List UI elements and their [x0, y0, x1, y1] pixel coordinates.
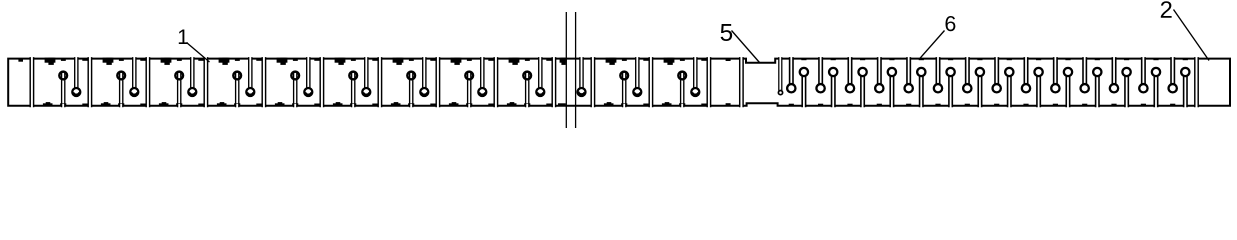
cell 4 keyhole cut K4a — [233, 71, 241, 107]
short cell bottom notch — [726, 103, 731, 105]
cell 6 top edge notch — [335, 58, 346, 65]
cell 8 cell end notches — [488, 58, 493, 106]
cell 2 keyhole cut K2b — [130, 57, 138, 96]
comb cut up U8 — [1005, 59, 1013, 108]
cell 3 top edge notch — [161, 58, 172, 65]
link slot S12 — [649, 57, 652, 108]
leader line 5 — [732, 31, 760, 63]
cell 1 keyhole cut K1a — [59, 71, 67, 107]
comb cut up U14 — [1181, 59, 1189, 108]
cell 2 cell end notches — [140, 58, 145, 106]
comb cut down D9 — [1022, 57, 1030, 106]
cell 9 small top notch — [525, 59, 530, 61]
cell 11 top edge notch — [664, 58, 675, 65]
cell 2 bottom edge notch — [101, 102, 111, 106]
cell 7 top edge notch — [393, 58, 404, 65]
label 5 — [721, 24, 733, 41]
comb cut down D8 — [993, 57, 1001, 106]
cell 8 small top notch — [467, 59, 472, 61]
link slot S4 — [204, 57, 207, 108]
cell 11 cell end notches — [701, 58, 706, 106]
left end cap tab — [18, 59, 23, 62]
cell 3 cell end notches — [198, 58, 203, 106]
cell 7 keyhole cut K7b — [420, 57, 428, 96]
link slot S1 — [30, 57, 33, 108]
cell 11 bottom edge notch — [662, 102, 672, 106]
comb cut down D4 — [875, 57, 883, 106]
cell 9 top edge notch — [509, 58, 520, 65]
cell 4 bottom edge notch — [217, 102, 227, 106]
cell 3 keyhole cut K3b — [188, 57, 196, 96]
label 1 — [179, 29, 188, 44]
cell 6 keyhole cut K6b — [362, 57, 370, 96]
comb cut up U3 — [858, 59, 866, 108]
comb cut down D2 — [816, 57, 824, 106]
cell 7 small top notch — [409, 59, 414, 61]
break line right — [575, 12, 577, 128]
link slot S8 — [436, 57, 439, 108]
cell 4 small top notch — [235, 59, 240, 61]
cell 8 keyhole cut K8b — [478, 57, 486, 96]
cell 8 bottom edge notch — [449, 102, 459, 106]
link slot S6 — [320, 57, 323, 108]
cell 1 bottom edge notch — [43, 102, 53, 106]
comb cut down D1 — [787, 57, 795, 106]
cell 11 small top notch — [680, 59, 685, 61]
comb cut up U13 — [1152, 59, 1160, 108]
cell 10 top edge notch — [606, 58, 617, 65]
label 2 — [1161, 1, 1172, 18]
cell 4 keyhole cut K4b — [246, 57, 254, 96]
cell 6 cell end notches — [372, 58, 377, 106]
comb cut down D11 — [1081, 57, 1089, 106]
cell 7 keyhole cut K7a — [407, 71, 415, 107]
link slot S11 — [591, 57, 594, 108]
cell 11 keyhole cut K11a — [678, 71, 686, 107]
comb cut down D3 — [846, 57, 854, 106]
cell 1 top edge notch — [45, 58, 56, 65]
link slot S5 — [262, 57, 265, 108]
cell 5 small top notch — [293, 59, 298, 61]
cell 6 keyhole cut K6a — [349, 71, 357, 107]
cell 10 keyhole cut K10a — [620, 71, 628, 107]
cell 4 cell end notches — [256, 58, 261, 106]
cell 7 cell end notches — [430, 58, 435, 106]
end cap joint slot — [1195, 57, 1198, 108]
cell 2 keyhole cut K2a — [117, 71, 125, 107]
link slot S2 — [88, 57, 91, 108]
cell 8 top edge notch — [451, 58, 462, 65]
leader line 1 — [187, 43, 210, 63]
link slot S7 — [378, 57, 381, 108]
cell 10 small top notch — [622, 59, 627, 61]
link slot S10 — [552, 57, 555, 108]
comb cut down D6 — [934, 57, 942, 106]
cell 1 small top notch — [61, 59, 66, 61]
cell 1 keyhole cut K1b — [72, 57, 80, 96]
comb cut up U6 — [946, 59, 954, 108]
cell 3 small top notch — [177, 59, 182, 61]
comb cut up U11 — [1093, 59, 1101, 108]
comb cut up U5 — [917, 59, 925, 108]
short cell top notch — [726, 58, 731, 61]
cell 3 bottom edge notch — [159, 102, 169, 106]
comb cut down D5 — [905, 57, 913, 106]
keyhole cut right of break — [578, 57, 586, 96]
cell 11 keyhole cut K11b — [691, 57, 699, 96]
cell 1 cell end notches — [82, 58, 87, 106]
cell 2 small top notch — [119, 59, 124, 61]
cell 5 cell end notches — [314, 58, 319, 106]
cell 4 top edge notch — [219, 58, 230, 65]
link slot S9 — [494, 57, 497, 108]
cell 9 keyhole cut K9b — [536, 57, 544, 96]
comb cut down D13 — [1139, 57, 1147, 106]
link slot S3 — [146, 57, 149, 108]
comb cut up U2 — [829, 59, 837, 108]
cell 5 bottom edge notch — [275, 102, 285, 106]
partial cell bottom notch before break — [558, 103, 566, 106]
comb cut down D7 — [963, 57, 971, 106]
cell 8 keyhole cut K8a — [465, 71, 473, 107]
cell 5 top edge notch — [277, 58, 288, 65]
break line left — [565, 12, 567, 128]
comb cut up U12 — [1122, 59, 1130, 108]
link slot S14 — [740, 57, 743, 108]
slot at comb joint — [778, 57, 782, 95]
comb cut up U7 — [976, 59, 984, 108]
cell 3 keyhole cut K3a — [175, 71, 183, 107]
partial cell top notch before break — [560, 58, 566, 65]
cell 6 bottom edge notch — [333, 102, 343, 106]
band outline with necked transition — [8, 59, 1230, 106]
cell 9 keyhole cut K9a — [523, 71, 531, 107]
cell 5 keyhole cut K5b — [304, 57, 312, 96]
comb cut up U9 — [1034, 59, 1042, 108]
cell 10 cell end notches — [643, 58, 648, 106]
comb cut up U10 — [1064, 59, 1072, 108]
cell 5 keyhole cut K5a — [291, 71, 299, 107]
cell 2 top edge notch — [103, 58, 114, 65]
comb cut down D14 — [1169, 57, 1177, 106]
cell 6 small top notch — [351, 59, 356, 61]
cell 10 keyhole cut K10b — [633, 57, 641, 96]
comb cut up U4 — [888, 59, 896, 108]
cell 7 bottom edge notch — [391, 102, 401, 106]
comb cut down D12 — [1110, 57, 1118, 106]
comb cut down D10 — [1051, 57, 1059, 106]
label 6 — [946, 16, 956, 31]
leader line 2 — [1174, 10, 1210, 61]
comb cut up U1 — [800, 59, 808, 108]
cell 9 cell end notches — [546, 58, 551, 106]
cell 10 bottom edge notch — [604, 102, 614, 106]
link slot S13 — [707, 57, 710, 108]
leader line 6 — [920, 31, 945, 59]
cell 9 bottom edge notch — [507, 102, 517, 106]
